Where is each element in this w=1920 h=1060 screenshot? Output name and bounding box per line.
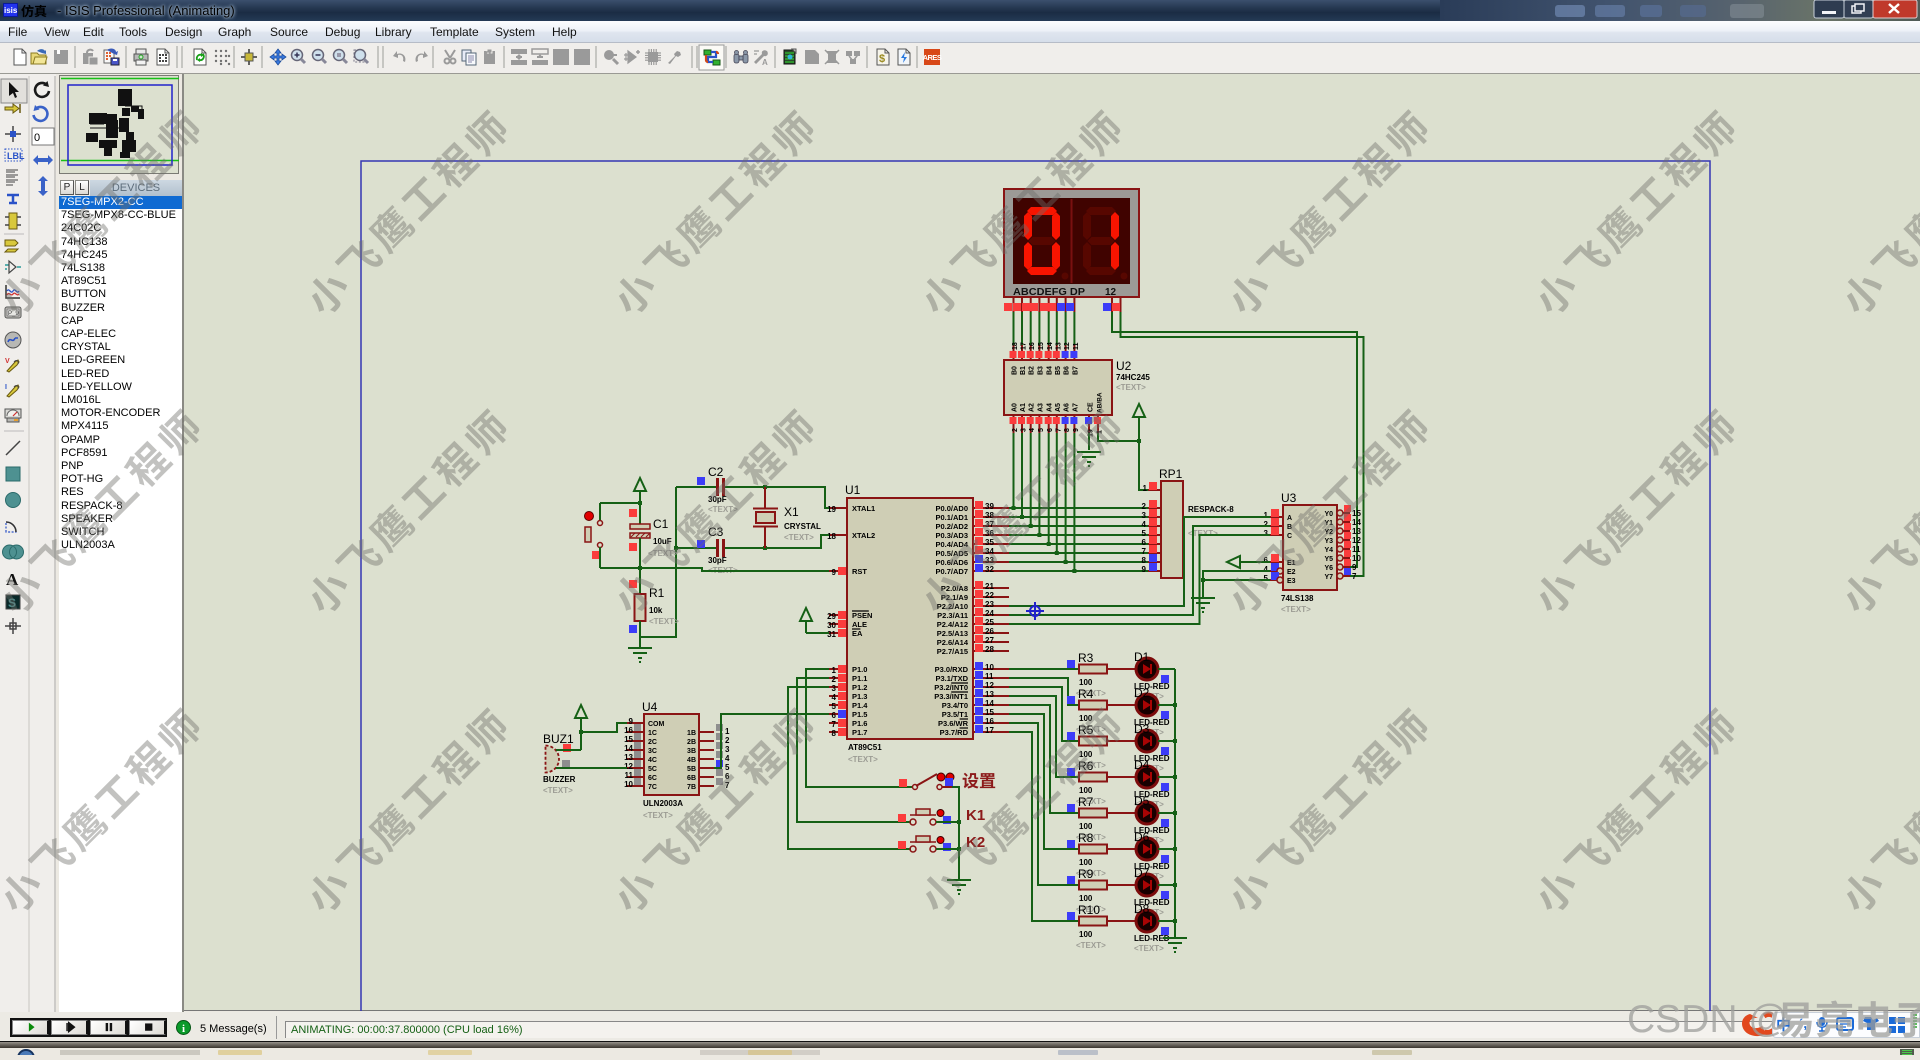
svg-text:LBL: LBL bbox=[7, 151, 25, 161]
svg-text:6: 6 bbox=[1142, 538, 1147, 547]
svg-text:35: 35 bbox=[985, 538, 994, 547]
svg-text:37: 37 bbox=[985, 520, 994, 529]
svg-text:CE: CE bbox=[1088, 402, 1095, 412]
svg-text:Y6: Y6 bbox=[1324, 565, 1333, 572]
svg-text:14: 14 bbox=[624, 744, 633, 753]
crystal X1 bbox=[753, 487, 821, 548]
svg-text:30pF: 30pF bbox=[708, 556, 727, 565]
LED D8 LED-RED bbox=[1107, 902, 1170, 953]
wire digit1 to U3 Y6 bbox=[1112, 312, 1357, 567]
wire switch to ground rail bbox=[952, 787, 959, 880]
svg-text:D6: D6 bbox=[1134, 830, 1150, 844]
svg-text:4: 4 bbox=[1142, 520, 1147, 529]
svg-text:<TEXT>: <TEXT> bbox=[848, 755, 878, 764]
svg-text:38: 38 bbox=[985, 511, 994, 520]
power +5V U4 bbox=[575, 705, 627, 750]
svg-text:K2: K2 bbox=[966, 834, 985, 851]
svg-text:16: 16 bbox=[985, 717, 994, 726]
svg-text:E1: E1 bbox=[1287, 560, 1296, 567]
svg-text:5C: 5C bbox=[648, 766, 657, 773]
svg-text:2B: 2B bbox=[687, 739, 696, 746]
svg-text:R7: R7 bbox=[1078, 795, 1094, 809]
svg-text:Y5: Y5 bbox=[1324, 556, 1333, 563]
svg-text:E3: E3 bbox=[1287, 578, 1296, 585]
svg-text:R3: R3 bbox=[1078, 651, 1094, 665]
wire C2 C3 ground leg bbox=[640, 487, 676, 637]
svg-text:3: 3 bbox=[832, 684, 837, 693]
svg-text:P1.1: P1.1 bbox=[852, 674, 867, 683]
svg-text:15: 15 bbox=[624, 735, 633, 744]
svg-text:P2.3/A11: P2.3/A11 bbox=[937, 611, 968, 620]
wire LED ground rail bbox=[1174, 669, 1176, 938]
IC U4 ULN2003A bbox=[624, 700, 730, 820]
svg-text:5: 5 bbox=[832, 702, 837, 711]
svg-text:19: 19 bbox=[827, 505, 836, 514]
svg-text:1: 1 bbox=[832, 666, 837, 675]
svg-text:B7: B7 bbox=[1072, 366, 1079, 375]
svg-text:17: 17 bbox=[985, 726, 994, 735]
svg-text:R9: R9 bbox=[1078, 867, 1094, 881]
svg-text:B1: B1 bbox=[1020, 366, 1027, 375]
svg-text:B2: B2 bbox=[1029, 366, 1036, 375]
svg-text:74LS138: 74LS138 bbox=[1281, 594, 1314, 603]
svg-text:14: 14 bbox=[1047, 342, 1054, 350]
svg-text:3B: 3B bbox=[687, 748, 696, 755]
svg-text:2: 2 bbox=[1264, 520, 1269, 529]
svg-text:10: 10 bbox=[624, 780, 633, 789]
svg-text:3: 3 bbox=[1142, 511, 1147, 520]
svg-text:8: 8 bbox=[832, 729, 837, 738]
svg-text:30: 30 bbox=[827, 621, 836, 630]
svg-text:2: 2 bbox=[832, 675, 837, 684]
svg-text:V: V bbox=[5, 358, 10, 365]
svg-text:10uF: 10uF bbox=[653, 537, 672, 546]
svg-text:18: 18 bbox=[827, 532, 836, 541]
wire P1.0 to switch bbox=[806, 669, 913, 787]
svg-text:P0.7/AD7: P0.7/AD7 bbox=[935, 567, 968, 576]
svg-text:P_9: P_9 bbox=[8, 311, 19, 317]
svg-text:7B: 7B bbox=[687, 784, 696, 791]
svg-text:<TEXT>: <TEXT> bbox=[648, 549, 678, 558]
svg-text:10k: 10k bbox=[649, 606, 663, 615]
svg-text:100: 100 bbox=[1079, 822, 1093, 831]
svg-text:U4: U4 bbox=[642, 700, 658, 714]
svg-text:P0.3/AD3: P0.3/AD3 bbox=[935, 531, 968, 540]
svg-text:13: 13 bbox=[624, 753, 633, 762]
svg-text:100: 100 bbox=[1079, 750, 1093, 759]
svg-text:<TEXT>: <TEXT> bbox=[1134, 944, 1164, 953]
svg-text:<TEXT>: <TEXT> bbox=[708, 505, 738, 514]
resistor R1 10k bbox=[629, 568, 679, 648]
svg-text:<TEXT>: <TEXT> bbox=[643, 811, 673, 820]
svg-text:24: 24 bbox=[985, 609, 994, 618]
svg-text:BUZ1: BUZ1 bbox=[543, 732, 574, 746]
svg-text:P0.2/AD2: P0.2/AD2 bbox=[935, 522, 968, 531]
svg-text:15: 15 bbox=[1352, 509, 1361, 518]
wire U4 5B to P1.5 bbox=[714, 714, 829, 768]
buzzer BUZ1 bbox=[543, 732, 627, 795]
svg-text:AB/BA: AB/BA bbox=[1097, 392, 1104, 413]
svg-text:12: 12 bbox=[1352, 536, 1361, 545]
svg-text:ARES: ARES bbox=[923, 53, 942, 62]
svg-text:D4: D4 bbox=[1134, 758, 1150, 772]
svg-text:6: 6 bbox=[725, 772, 730, 781]
resistor R9 100 bbox=[1067, 867, 1107, 914]
wire XTAL1 net bbox=[676, 485, 829, 508]
svg-text:100: 100 bbox=[1079, 678, 1093, 687]
svg-text:6: 6 bbox=[1264, 556, 1269, 565]
svg-text:A5: A5 bbox=[1055, 403, 1062, 412]
svg-text:D2: D2 bbox=[1134, 686, 1150, 700]
wire LED cathode bbox=[1158, 883, 1177, 887]
svg-text:11: 11 bbox=[625, 771, 634, 780]
svg-text:B: B bbox=[1287, 524, 1292, 531]
svg-text:4: 4 bbox=[725, 754, 730, 763]
svg-text:C: C bbox=[1287, 533, 1292, 540]
svg-text:100: 100 bbox=[1079, 930, 1093, 939]
7-segment display 7SEG-MPX2-CC bbox=[1004, 189, 1139, 312]
svg-text:<TEXT>: <TEXT> bbox=[1116, 383, 1146, 392]
svg-text:74HC245: 74HC245 bbox=[1116, 373, 1150, 382]
svg-text:0: 0 bbox=[34, 132, 40, 144]
svg-text:16: 16 bbox=[624, 726, 633, 735]
svg-text:5: 5 bbox=[1142, 529, 1147, 538]
svg-text:A3: A3 bbox=[1037, 403, 1044, 412]
svg-text:3: 3 bbox=[1264, 529, 1269, 538]
svg-text:ABCDEFG DP: ABCDEFG DP bbox=[1013, 287, 1085, 298]
svg-text:C3: C3 bbox=[708, 525, 724, 539]
svg-text:EA: EA bbox=[852, 629, 863, 638]
svg-text:P3.0/RXD: P3.0/RXD bbox=[935, 665, 969, 674]
wire LED cathode bbox=[1158, 919, 1177, 923]
svg-text:AT89C51: AT89C51 bbox=[848, 743, 882, 752]
cursor crosshair bbox=[1026, 602, 1044, 620]
svg-text:11: 11 bbox=[1352, 545, 1361, 554]
svg-text:6: 6 bbox=[832, 711, 837, 720]
resistor R10 100 bbox=[1067, 903, 1107, 950]
svg-text:100: 100 bbox=[1079, 714, 1093, 723]
svg-text:P1.4: P1.4 bbox=[852, 701, 868, 710]
svg-text:1: 1 bbox=[1143, 484, 1148, 493]
wire P0 bus bbox=[1009, 433, 1148, 573]
svg-text:S: S bbox=[8, 596, 16, 610]
svg-text:BUZZER: BUZZER bbox=[543, 775, 576, 784]
svg-text:A6: A6 bbox=[1064, 403, 1071, 412]
wire P1.1 to K1 bbox=[797, 678, 911, 822]
svg-text:ULN2003A: ULN2003A bbox=[643, 799, 683, 808]
wire LED cathode bbox=[1158, 775, 1177, 779]
svg-text:6C: 6C bbox=[648, 775, 657, 782]
svg-text:4: 4 bbox=[1264, 565, 1269, 574]
LED D4 LED-RED bbox=[1107, 758, 1170, 809]
svg-text:P0.6/AD6: P0.6/AD6 bbox=[935, 558, 968, 567]
svg-text:U2: U2 bbox=[1116, 359, 1132, 373]
resistor R4 100 bbox=[1067, 687, 1107, 734]
svg-text:XTAL2: XTAL2 bbox=[852, 531, 875, 540]
svg-text:9: 9 bbox=[629, 717, 634, 726]
svg-text:5B: 5B bbox=[687, 766, 696, 773]
svg-text:7C: 7C bbox=[648, 784, 657, 791]
capacitor C1 10uF bbox=[629, 517, 678, 568]
svg-text:Y4: Y4 bbox=[1324, 547, 1333, 554]
power +5V EA bbox=[800, 608, 829, 633]
switch 设置 bbox=[899, 773, 995, 790]
LED D3 LED-RED bbox=[1107, 722, 1170, 773]
svg-text:P1.5: P1.5 bbox=[852, 710, 867, 719]
svg-text:8: 8 bbox=[1064, 428, 1071, 432]
svg-text:28: 28 bbox=[985, 645, 994, 654]
svg-text:23: 23 bbox=[985, 600, 994, 609]
svg-text:P0.5/AD5: P0.5/AD5 bbox=[935, 549, 968, 558]
svg-text:8: 8 bbox=[1142, 556, 1147, 565]
resistor pack RP1 RESPACK-8 bbox=[1142, 467, 1235, 578]
ground LEDs bbox=[1163, 938, 1187, 952]
svg-text:100: 100 bbox=[1079, 786, 1093, 795]
svg-text:R1: R1 bbox=[649, 586, 665, 600]
resistor R3 100 bbox=[1067, 651, 1107, 698]
svg-text:4: 4 bbox=[1029, 428, 1036, 432]
svg-text:9: 9 bbox=[832, 568, 837, 577]
ground switches bbox=[947, 880, 971, 894]
svg-text:A: A bbox=[762, 58, 768, 67]
svg-text:B3: B3 bbox=[1037, 366, 1044, 375]
svg-text:P3.5/T1: P3.5/T1 bbox=[942, 710, 968, 719]
svg-text:P2.6/A14: P2.6/A14 bbox=[937, 638, 969, 647]
svg-text:Y0: Y0 bbox=[1324, 511, 1333, 518]
svg-text:17: 17 bbox=[1021, 342, 1028, 350]
svg-text:11: 11 bbox=[985, 672, 994, 681]
svg-text:10: 10 bbox=[1352, 554, 1361, 563]
wire RST net bbox=[600, 566, 829, 571]
IC U2 74HC245 bbox=[1004, 342, 1150, 437]
svg-text:5: 5 bbox=[1038, 428, 1045, 432]
svg-text:B5: B5 bbox=[1055, 366, 1062, 375]
svg-text:PSEN: PSEN bbox=[852, 611, 872, 620]
svg-text:13: 13 bbox=[1055, 342, 1062, 350]
svg-text:C2: C2 bbox=[708, 465, 724, 479]
svg-text:RESPACK-8: RESPACK-8 bbox=[1188, 505, 1234, 514]
svg-text:7: 7 bbox=[1142, 547, 1147, 556]
svg-text:RST: RST bbox=[852, 567, 867, 576]
LED D2 LED-RED bbox=[1107, 686, 1170, 737]
wire P2.4 to U3 C bbox=[1009, 535, 1270, 624]
svg-text:R5: R5 bbox=[1078, 723, 1094, 737]
svg-text:P2.0/A8: P2.0/A8 bbox=[941, 584, 968, 593]
resistor R8 100 bbox=[1067, 831, 1107, 878]
button reset bbox=[585, 503, 638, 568]
svg-text:7: 7 bbox=[725, 781, 730, 790]
svg-text:5: 5 bbox=[1264, 574, 1269, 583]
svg-text:E2: E2 bbox=[1287, 569, 1296, 576]
svg-text:3C: 3C bbox=[648, 748, 657, 755]
svg-text:7: 7 bbox=[1055, 428, 1062, 432]
wire LED cathode bbox=[1158, 703, 1177, 707]
svg-text:P3.2/INT0: P3.2/INT0 bbox=[934, 683, 968, 692]
svg-text:R8: R8 bbox=[1078, 831, 1094, 845]
svg-text:i: i bbox=[182, 1023, 185, 1035]
svg-text:2C: 2C bbox=[648, 739, 657, 746]
wire XTAL2 net bbox=[674, 535, 829, 550]
svg-text:14: 14 bbox=[985, 699, 994, 708]
svg-text:<TEXT>: <TEXT> bbox=[649, 617, 679, 626]
svg-text:P1.2: P1.2 bbox=[852, 683, 867, 692]
button K1 bbox=[898, 807, 985, 825]
svg-text:B6: B6 bbox=[1064, 366, 1071, 375]
wire P2.2 to U3 A bbox=[1009, 517, 1270, 606]
svg-text:<TEXT>: <TEXT> bbox=[1281, 605, 1311, 614]
svg-text:A1: A1 bbox=[1020, 403, 1027, 412]
svg-text:22: 22 bbox=[985, 591, 994, 600]
svg-text:P3.3/INT1: P3.3/INT1 bbox=[934, 692, 968, 701]
svg-text:U3: U3 bbox=[1281, 491, 1297, 505]
wire LED cathode bbox=[1158, 811, 1177, 815]
svg-text:ALE: ALE bbox=[852, 620, 867, 629]
IC U1 AT89C51 bbox=[827, 483, 1009, 764]
svg-text:100: 100 bbox=[1079, 894, 1093, 903]
resistor R7 100 bbox=[1067, 795, 1107, 842]
wire P3 to LED resistors bbox=[1009, 669, 1079, 921]
sheet bbox=[361, 161, 1710, 1060]
svg-text:26: 26 bbox=[985, 627, 994, 636]
svg-text:XTAL1: XTAL1 bbox=[852, 504, 875, 513]
svg-text:P0.0/AD0: P0.0/AD0 bbox=[935, 504, 968, 513]
ground U2 CE bbox=[1077, 433, 1101, 466]
svg-text:27: 27 bbox=[985, 636, 994, 645]
svg-text:Y2: Y2 bbox=[1324, 529, 1333, 536]
wire VCC to RP1 pin1 bbox=[1139, 441, 1148, 490]
svg-text:1: 1 bbox=[1264, 511, 1269, 520]
svg-text:1C: 1C bbox=[648, 730, 657, 737]
svg-text:13: 13 bbox=[985, 690, 994, 699]
wire P2.3 to U3 B bbox=[1009, 526, 1270, 615]
wire segment bus display to U2 bbox=[1014, 312, 1075, 345]
svg-text:P3.1/TXD: P3.1/TXD bbox=[935, 674, 968, 683]
svg-text:P2.7/A15: P2.7/A15 bbox=[937, 647, 968, 656]
svg-text:<TEXT>: <TEXT> bbox=[1076, 941, 1106, 950]
wire LED cathode bbox=[1158, 668, 1175, 670]
svg-text:12: 12 bbox=[1064, 342, 1071, 350]
svg-text:2: 2 bbox=[1142, 502, 1147, 511]
wire LED cathode bbox=[1158, 847, 1177, 851]
svg-text:K1: K1 bbox=[966, 807, 985, 824]
svg-text:RP1: RP1 bbox=[1159, 467, 1183, 481]
svg-text:9: 9 bbox=[1073, 428, 1080, 432]
svg-text:<TEXT>: <TEXT> bbox=[784, 533, 814, 542]
LED D1 LED-RED bbox=[1107, 650, 1170, 701]
svg-text:12: 12 bbox=[985, 681, 994, 690]
svg-text:11: 11 bbox=[1073, 342, 1080, 350]
svg-text:D5: D5 bbox=[1134, 794, 1150, 808]
svg-text:3: 3 bbox=[1021, 428, 1028, 432]
svg-text:15: 15 bbox=[985, 708, 994, 717]
svg-text:9: 9 bbox=[1352, 563, 1357, 572]
svg-text:5: 5 bbox=[725, 763, 730, 772]
svg-text:COM: COM bbox=[648, 721, 665, 728]
svg-text:31: 31 bbox=[827, 630, 836, 639]
svg-text:15: 15 bbox=[1038, 342, 1045, 350]
svg-text:Y7: Y7 bbox=[1324, 574, 1333, 581]
svg-text:16: 16 bbox=[1029, 342, 1036, 350]
svg-text:R10: R10 bbox=[1078, 903, 1100, 917]
svg-text:P0.4/AD4: P0.4/AD4 bbox=[935, 540, 968, 549]
svg-text:34: 34 bbox=[985, 547, 994, 556]
svg-text:P3.4/T0: P3.4/T0 bbox=[942, 701, 968, 710]
capacitor C3 30pF bbox=[697, 525, 738, 575]
svg-text:P0.1/AD1: P0.1/AD1 bbox=[935, 513, 968, 522]
svg-text:7: 7 bbox=[1352, 572, 1357, 581]
svg-text:D3: D3 bbox=[1134, 722, 1150, 736]
ground U3 E2 E3 bbox=[1191, 571, 1270, 612]
svg-text:Y1: Y1 bbox=[1324, 520, 1333, 527]
svg-text:P3.6/WR: P3.6/WR bbox=[938, 719, 969, 728]
svg-text:1: 1 bbox=[725, 727, 730, 736]
svg-text:2: 2 bbox=[725, 736, 730, 745]
svg-text:R6: R6 bbox=[1078, 759, 1094, 773]
svg-text:39: 39 bbox=[985, 502, 994, 511]
svg-text:12: 12 bbox=[624, 762, 633, 771]
svg-text:D1: D1 bbox=[1134, 650, 1150, 664]
power +5V reset bbox=[600, 478, 646, 524]
svg-text:<TEXT>: <TEXT> bbox=[543, 786, 573, 795]
svg-text:R4: R4 bbox=[1078, 687, 1094, 701]
LED D7 LED-RED bbox=[1107, 866, 1170, 917]
capacitor C2 30pF bbox=[697, 465, 738, 514]
svg-text:6: 6 bbox=[1047, 428, 1054, 432]
svg-text:X1: X1 bbox=[784, 505, 799, 519]
svg-text:A: A bbox=[6, 570, 19, 589]
power terminal U3 E1 bbox=[1227, 556, 1270, 568]
svg-text:U1: U1 bbox=[845, 483, 861, 497]
svg-text:A0: A0 bbox=[1012, 403, 1019, 412]
svg-text:3: 3 bbox=[725, 745, 730, 754]
svg-text:25: 25 bbox=[985, 618, 994, 627]
svg-text:D7: D7 bbox=[1134, 866, 1150, 880]
resistor R5 100 bbox=[1067, 723, 1107, 770]
wire digit2 to U3 Y7 bbox=[1121, 312, 1364, 576]
svg-text:A4: A4 bbox=[1047, 403, 1054, 412]
svg-text:B0: B0 bbox=[1012, 366, 1019, 375]
svg-text:7: 7 bbox=[832, 720, 837, 729]
svg-text:21: 21 bbox=[985, 582, 994, 591]
svg-text:A7: A7 bbox=[1072, 403, 1079, 412]
resistor R6 100 bbox=[1067, 759, 1107, 806]
svg-text:P2.2/A10: P2.2/A10 bbox=[937, 602, 968, 611]
svg-text:6B: 6B bbox=[687, 775, 696, 782]
svg-text:$: $ bbox=[879, 53, 885, 65]
svg-text:P1.0: P1.0 bbox=[852, 665, 867, 674]
svg-text:P2.1/A9: P2.1/A9 bbox=[941, 593, 968, 602]
svg-text:P1.7: P1.7 bbox=[852, 728, 867, 737]
svg-text:13: 13 bbox=[1352, 527, 1361, 536]
svg-text:A2: A2 bbox=[1029, 403, 1036, 412]
svg-text:33: 33 bbox=[985, 556, 994, 565]
svg-text:10: 10 bbox=[985, 663, 994, 672]
svg-text:4B: 4B bbox=[687, 757, 696, 764]
svg-text:4C: 4C bbox=[648, 757, 657, 764]
LED D5 LED-RED bbox=[1107, 794, 1170, 845]
svg-text:C1: C1 bbox=[653, 517, 669, 531]
svg-text:18: 18 bbox=[1012, 342, 1019, 350]
svg-text:P1.6: P1.6 bbox=[852, 719, 867, 728]
svg-text:P1.3: P1.3 bbox=[852, 692, 867, 701]
svg-text:30pF: 30pF bbox=[708, 495, 727, 504]
svg-text:D8: D8 bbox=[1134, 902, 1150, 916]
ground reset bbox=[628, 648, 652, 662]
svg-text:9: 9 bbox=[1142, 565, 1147, 574]
svg-text:14: 14 bbox=[1352, 518, 1361, 527]
svg-text:2: 2 bbox=[1012, 428, 1019, 432]
svg-text:P2.5/A13: P2.5/A13 bbox=[937, 629, 968, 638]
